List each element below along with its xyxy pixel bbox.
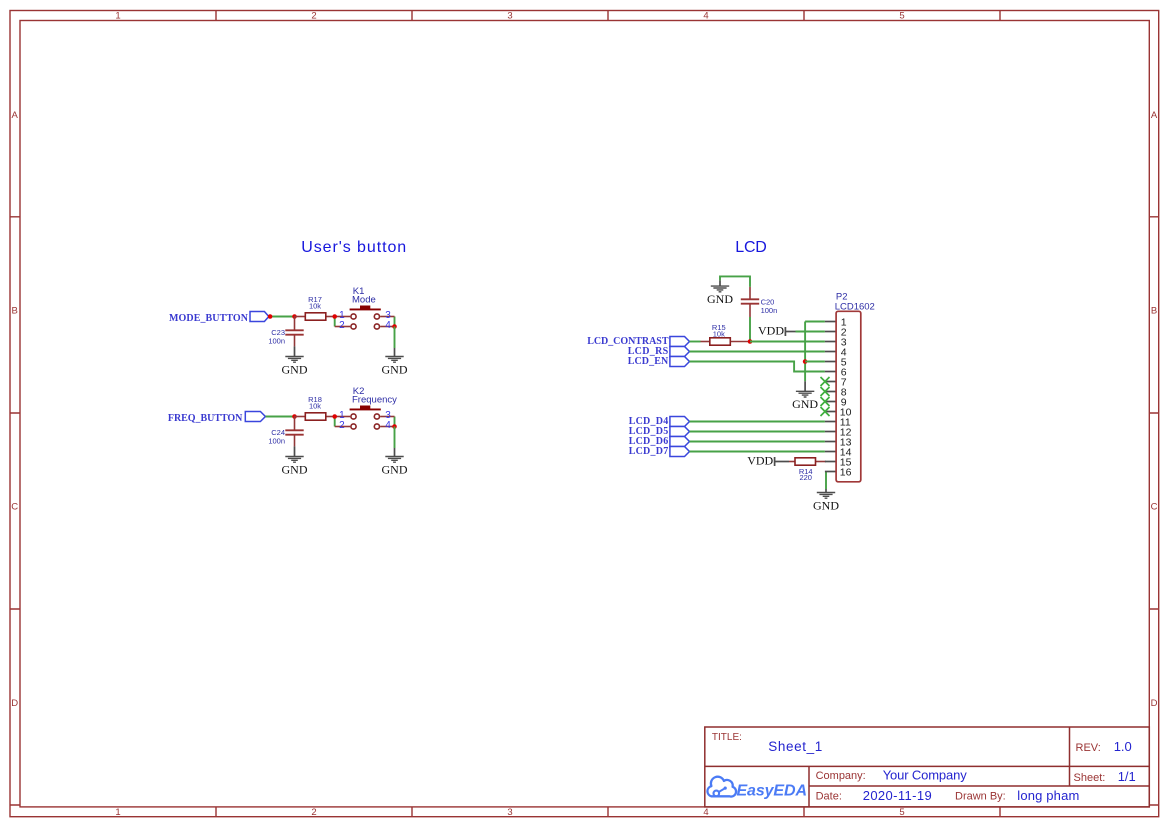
svg-text:4: 4 xyxy=(703,807,708,818)
svg-text:100n: 100n xyxy=(761,306,778,315)
svg-text:1: 1 xyxy=(115,11,120,22)
svg-text:LCD_D7: LCD_D7 xyxy=(629,446,669,457)
svg-text:D: D xyxy=(1151,698,1158,709)
svg-text:A: A xyxy=(12,110,19,121)
svg-text:5: 5 xyxy=(899,807,904,818)
svg-text:C: C xyxy=(1151,502,1158,513)
junction node FREQ/C24 xyxy=(292,414,297,419)
svg-text:EasyEDA: EasyEDA xyxy=(737,783,808,800)
svg-text:10k: 10k xyxy=(713,330,725,339)
no-connect flag pin9 xyxy=(821,397,830,406)
svg-text:A: A xyxy=(1151,110,1158,121)
EasyEDA logo xyxy=(707,777,807,800)
svg-text:16: 16 xyxy=(840,467,852,479)
wire LCD_CONTRAST to R15 xyxy=(690,341,701,343)
resistor R17 xyxy=(295,295,335,320)
net port MODE_BUTTON xyxy=(169,312,269,324)
svg-text:4: 4 xyxy=(703,11,708,22)
wire VDD to pin2 xyxy=(796,331,825,333)
net port LCD_RS xyxy=(628,346,690,357)
svg-text:C20: C20 xyxy=(761,297,775,306)
junction trunk at pin5 xyxy=(803,359,808,364)
SECTION: User's button xyxy=(168,239,408,476)
svg-text:Sheet_1: Sheet_1 xyxy=(768,739,822,754)
power flag VDD pin15 xyxy=(747,454,789,468)
ground at C23 xyxy=(282,346,308,376)
title block xyxy=(705,727,1150,807)
wire MODE_BUTTON to R17 xyxy=(270,316,295,318)
svg-text:100n: 100n xyxy=(268,437,285,446)
wire LCD_D4 to pin11 xyxy=(690,421,825,423)
capacitor C20 xyxy=(741,287,777,317)
wire LCD_EN to pin6 xyxy=(690,362,825,372)
capacitor C23 xyxy=(268,317,303,347)
wire LCD_D7 to pin14 xyxy=(690,451,825,453)
resistor R14 xyxy=(789,458,826,482)
no-connect flag pin8 xyxy=(821,387,830,396)
svg-text:220: 220 xyxy=(799,473,812,482)
svg-text:Your Company: Your Company xyxy=(883,768,968,783)
ground at K1 xyxy=(382,348,408,376)
svg-text:Mode: Mode xyxy=(352,295,376,306)
svg-text:LCD: LCD xyxy=(735,239,767,256)
connector P2 LCD1602 xyxy=(825,291,875,481)
wire trunk to pin5 xyxy=(805,361,825,363)
svg-text:2020-11-19: 2020-11-19 xyxy=(863,788,932,803)
svg-text:C: C xyxy=(11,502,18,513)
junction at port tip xyxy=(268,314,273,319)
wire node to pin3 xyxy=(750,341,825,343)
svg-text:1/1: 1/1 xyxy=(1118,769,1136,784)
svg-text:3: 3 xyxy=(507,807,512,818)
svg-text:5: 5 xyxy=(899,11,904,22)
svg-text:B: B xyxy=(12,306,18,317)
ground at C24 xyxy=(282,446,308,476)
svg-text:C24: C24 xyxy=(271,428,285,437)
svg-text:TITLE:: TITLE: xyxy=(712,732,742,743)
junction node MODE/C23 xyxy=(292,314,297,319)
svg-text:VDD: VDD xyxy=(747,454,773,468)
svg-text:Date:: Date: xyxy=(816,791,842,803)
svg-text:D: D xyxy=(11,698,18,709)
net port LCD_D5 xyxy=(629,426,690,437)
ground at K2 xyxy=(382,448,408,476)
svg-text:FREQ_BUTTON: FREQ_BUTTON xyxy=(168,413,243,424)
switch K1 xyxy=(332,286,396,331)
svg-text:MODE_BUTTON: MODE_BUTTON xyxy=(169,313,249,324)
svg-text:Sheet:: Sheet: xyxy=(1074,772,1106,784)
ground mid xyxy=(792,381,818,411)
svg-text:3: 3 xyxy=(507,11,512,22)
net port LCD_CONTRAST xyxy=(587,336,689,347)
svg-text:long pham: long pham xyxy=(1017,788,1079,803)
net port FREQ_BUTTON xyxy=(168,412,266,424)
wire top gnd to C20 xyxy=(720,276,750,287)
svg-text:Drawn By:: Drawn By: xyxy=(955,791,1006,803)
svg-text:1.0: 1.0 xyxy=(1114,739,1132,754)
wire LCD_D5 to pin12 xyxy=(690,431,825,433)
capacitor C24 xyxy=(268,417,303,447)
svg-text:10k: 10k xyxy=(309,302,321,311)
svg-text:Company:: Company: xyxy=(816,770,866,782)
svg-text:2: 2 xyxy=(311,11,316,22)
svg-text:C23: C23 xyxy=(271,328,285,337)
no-connect flag pin10 xyxy=(821,407,830,416)
wire K2 pin4 to ground xyxy=(394,427,396,449)
wire pin16 to ground xyxy=(825,472,827,490)
ground pin16 xyxy=(813,489,839,512)
power flag VDD pin2 xyxy=(758,324,796,338)
svg-text:User's button: User's button xyxy=(301,239,406,256)
svg-text:LCD_EN: LCD_EN xyxy=(628,356,669,367)
svg-text:2: 2 xyxy=(311,807,316,818)
net port LCD_D6 xyxy=(629,436,690,447)
svg-text:100n: 100n xyxy=(268,337,285,346)
net port LCD_D4 xyxy=(629,416,690,427)
SECTION: LCD xyxy=(587,239,875,512)
svg-text:10k: 10k xyxy=(309,402,321,411)
ground top xyxy=(707,280,733,306)
resistor R18 xyxy=(295,395,335,420)
svg-text:VDD: VDD xyxy=(758,324,784,338)
no-connect flag pin7 xyxy=(821,377,830,386)
wire pin1 to gnd trunk xyxy=(805,321,825,323)
wire LCD_RS to pin4 xyxy=(690,351,825,353)
wire FREQ_BUTTON to R18 xyxy=(266,416,295,418)
resistor R15 xyxy=(701,323,751,345)
wire gnd trunk vertical xyxy=(804,322,806,382)
svg-text:Frequency: Frequency xyxy=(352,395,397,406)
svg-text:1: 1 xyxy=(115,807,120,818)
net port LCD_D7 xyxy=(629,446,690,457)
junction node pin3 xyxy=(748,339,753,344)
switch K2 xyxy=(332,386,397,431)
wire K1 pin4 to ground xyxy=(394,327,396,349)
svg-text:B: B xyxy=(1151,306,1157,317)
svg-text:REV:: REV: xyxy=(1076,742,1101,754)
wire LCD_D6 to pin13 xyxy=(690,441,825,443)
net port LCD_EN xyxy=(628,356,690,367)
wire C20 to node pin3 xyxy=(749,317,751,342)
